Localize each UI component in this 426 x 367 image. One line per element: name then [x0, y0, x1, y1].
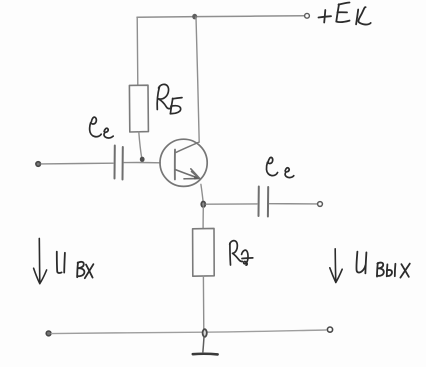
transistor (NPN) body circle [160, 139, 207, 186]
transistor emitter stroke with arrow [176, 169, 200, 180]
wire: input terminal to input capacitor [41, 162, 113, 165]
label Cc (output) [266, 157, 293, 177]
label Rб [157, 84, 182, 113]
terminal: +Ek [305, 13, 310, 18]
junction: emitter node [201, 202, 205, 208]
label Uвх [57, 252, 94, 279]
wire: output capacitor to output terminal [270, 203, 318, 205]
label Uвых [356, 252, 409, 278]
arrow Uвх [34, 238, 47, 283]
label Cc (input) [90, 117, 114, 138]
wire: collector to +Ek rail [196, 17, 199, 142]
capacitor Cc (output) [259, 187, 269, 217]
transistor base bar [174, 150, 176, 180]
junction: base node [140, 157, 145, 162]
wire: input capacitor to transistor base [124, 161, 160, 163]
terminal: input [36, 162, 41, 167]
wire: emitter node to Rэ [202, 207, 204, 228]
arrow Uвых [330, 249, 342, 283]
terminal: output [318, 202, 323, 207]
capacitor Cc (input) [115, 146, 123, 180]
transistor collector stroke [176, 142, 199, 152]
wire: bottom rail [51, 330, 326, 334]
wire: +Ek rail to Rб (left vertical drop) [136, 17, 139, 85]
junction: ground node [203, 329, 207, 337]
terminal: bottom right [327, 327, 332, 332]
resistor Rэ [193, 228, 215, 276]
wire: emitter node to output capacitor [206, 203, 257, 205]
terminal: bottom left [46, 331, 51, 336]
ground [193, 337, 218, 355]
wire: Rб bottom lead to base node [139, 132, 142, 159]
label Rэ [230, 241, 253, 266]
label +Ек [319, 3, 371, 25]
resistor Rб [129, 85, 148, 132]
wire: emitter to emitter node [201, 184, 203, 203]
wire: Rэ to bottom rail [202, 276, 204, 331]
junction: collector node on +Ek rail [192, 14, 197, 20]
wire: +Ek top rail [137, 16, 304, 17]
